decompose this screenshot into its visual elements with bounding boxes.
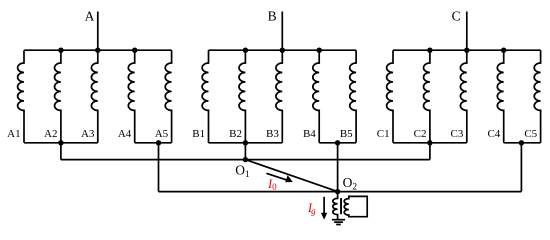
junction top bus B at B feed bbox=[280, 48, 285, 53]
junction top bus C at C2 bbox=[427, 48, 432, 53]
ground symbol bbox=[332, 220, 345, 225]
svg-text:B2: B2 bbox=[229, 128, 242, 140]
wire drop A2 to neutral bus 1 bbox=[60, 143, 62, 160]
inductor C2 bbox=[424, 50, 430, 143]
CT secondary winding loop bbox=[344, 196, 367, 216]
wire drop B4-B5 to neutral bus 2 bbox=[337, 143, 339, 192]
wire top bus group A bbox=[24, 49, 172, 51]
inductor B1 bbox=[202, 50, 208, 143]
wire drop C2 to neutral bus 1 bbox=[429, 143, 431, 160]
wire B phase feed bbox=[281, 12, 283, 51]
svg-text:A5: A5 bbox=[155, 128, 169, 140]
wire drop A4-A5 to neutral bus 2 bbox=[158, 143, 160, 192]
svg-text:A3: A3 bbox=[81, 128, 95, 140]
svg-text:C: C bbox=[452, 9, 461, 24]
wire neutral bus 2 (O2 bus) bbox=[159, 191, 522, 193]
arrow Ig direction bbox=[321, 197, 327, 220]
inductor A4 bbox=[128, 50, 134, 143]
inductor B4 bbox=[313, 50, 319, 143]
svg-text:Ig: Ig bbox=[307, 201, 316, 216]
wire neutral bus 1 (O1 bus) bbox=[61, 159, 430, 161]
junction top bus B at B2 bbox=[243, 48, 248, 53]
svg-text:A2: A2 bbox=[44, 128, 57, 140]
wire C phase feed bbox=[466, 12, 468, 51]
wire drop C4-C5 to neutral bus 2 bbox=[520, 143, 522, 192]
junction top bus A at A4 bbox=[132, 48, 137, 53]
junction top bus A at A feed bbox=[95, 48, 100, 53]
svg-text:B3: B3 bbox=[266, 128, 279, 140]
svg-text:C4: C4 bbox=[487, 128, 500, 140]
inductor A5 bbox=[165, 50, 171, 143]
wire top bus group C bbox=[393, 49, 541, 51]
junction C4-C5 segment tap bbox=[519, 140, 524, 145]
junction top bus C at C4 bbox=[501, 48, 506, 53]
svg-text:C2: C2 bbox=[414, 128, 427, 140]
svg-text:B: B bbox=[268, 9, 277, 24]
svg-text:A1: A1 bbox=[7, 128, 20, 140]
wire bottom segment A4-A5 bbox=[135, 142, 172, 144]
inductor A2 bbox=[54, 50, 60, 143]
inductor A1 bbox=[18, 50, 24, 143]
svg-text:C5: C5 bbox=[524, 128, 537, 140]
junction A4-A5 segment tap bbox=[156, 140, 161, 145]
junction A2 bottom bbox=[58, 140, 63, 145]
junction B2 bottom bbox=[243, 140, 248, 145]
wire bottom segment C1-C3 bbox=[393, 142, 467, 144]
svg-text:O1: O1 bbox=[235, 163, 250, 180]
inductor C1 bbox=[387, 50, 393, 143]
svg-text:C3: C3 bbox=[451, 128, 464, 140]
junction top bus A at A2 bbox=[58, 48, 63, 53]
CT primary winding bbox=[333, 192, 338, 220]
svg-text:A4: A4 bbox=[118, 128, 132, 140]
svg-text:O2: O2 bbox=[343, 175, 358, 192]
svg-text:A: A bbox=[85, 9, 95, 24]
CT core bar bbox=[340, 198, 342, 214]
inductor C5 bbox=[534, 50, 540, 143]
junction top bus C at C feed bbox=[464, 48, 469, 53]
wire diagonal O1 to O2 bbox=[245, 160, 337, 192]
wire bottom segment C4-C5 bbox=[504, 142, 541, 144]
inductor B5 bbox=[350, 50, 356, 143]
wire top bus group B bbox=[209, 49, 357, 51]
wire bottom segment B4-B5 bbox=[319, 142, 356, 144]
inductor A3 bbox=[91, 50, 97, 143]
svg-text:B4: B4 bbox=[303, 128, 316, 140]
inductor C3 bbox=[460, 50, 466, 143]
inductor B2 bbox=[239, 50, 245, 143]
wire drop B2 to neutral bus 1 bbox=[244, 143, 246, 160]
wire A phase feed bbox=[97, 12, 99, 51]
junction B4-B5 segment tap bbox=[335, 140, 340, 145]
wire bottom segment A1-A3 bbox=[24, 142, 98, 144]
svg-text:B1: B1 bbox=[192, 128, 205, 140]
node O1 junction bbox=[243, 157, 248, 162]
junction top bus B at B4 bbox=[317, 48, 322, 53]
svg-text:C1: C1 bbox=[377, 128, 390, 140]
svg-text:B5: B5 bbox=[340, 128, 353, 140]
node O2 junction bbox=[335, 189, 340, 194]
inductor B3 bbox=[276, 50, 282, 143]
wire bottom segment B1-B3 bbox=[209, 142, 283, 144]
junction C2 bottom bbox=[427, 140, 432, 145]
arrow I0 direction bbox=[266, 173, 292, 182]
svg-text:I0: I0 bbox=[267, 177, 277, 192]
inductor C4 bbox=[497, 50, 503, 143]
